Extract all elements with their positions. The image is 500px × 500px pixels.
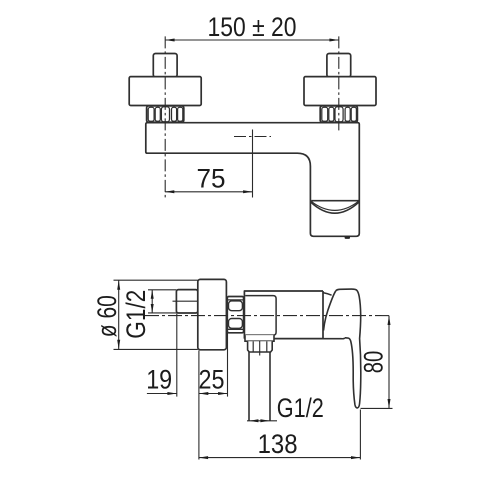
arrow 138 left bbox=[199, 456, 208, 459]
arrow ø60 up bbox=[117, 280, 120, 289]
handle cap and lever outline bbox=[336, 289, 361, 408]
right fitting centerline bbox=[338, 36, 340, 131]
arrow 150 left bbox=[165, 39, 174, 42]
small G1/2 extension bottom bbox=[148, 312, 176, 314]
138 dimension line bbox=[199, 457, 361, 459]
outlet hex bbox=[248, 341, 273, 352]
wall supply connector G1/2 bbox=[176, 290, 197, 313]
svg-text:G1/2: G1/2 bbox=[277, 393, 324, 423]
138 right extension bbox=[359, 410, 361, 460]
arrow 75 left bbox=[165, 190, 174, 193]
right escutcheon bbox=[304, 77, 376, 106]
outlet pipe right edge bbox=[269, 352, 271, 421]
handle skirt shoulder curve bbox=[323, 293, 332, 296]
ø60 extension top bbox=[114, 279, 198, 281]
outlet flange bbox=[245, 335, 274, 341]
left escutcheon bbox=[129, 77, 201, 106]
arrow ø60 down bbox=[117, 340, 120, 349]
handle lever front edge bbox=[324, 291, 336, 331]
small G1/2 extension top bbox=[148, 289, 176, 291]
main centerline bbox=[145, 315, 391, 317]
union nut side view bbox=[227, 297, 243, 333]
svg-text:150 ± 20: 150 ± 20 bbox=[208, 12, 297, 42]
svg-text:ø 60: ø 60 bbox=[92, 295, 122, 337]
bar center cross horizontal bbox=[234, 136, 271, 138]
aerator ring outer arc bbox=[311, 202, 359, 213]
right union cap bbox=[327, 54, 351, 77]
arrow G1/2 left bbox=[249, 419, 258, 422]
80 dimension line bbox=[388, 316, 390, 409]
arrow 80 down bbox=[388, 399, 391, 408]
svg-text:138: 138 bbox=[258, 429, 298, 459]
dimension 75 line bbox=[165, 191, 253, 193]
25 dimension line bbox=[199, 393, 228, 395]
arrow small G1/2 up bbox=[151, 290, 154, 299]
G1/2 bottom dimension line bbox=[247, 420, 277, 422]
ø60 extension bottom bbox=[114, 348, 198, 350]
aerator ring straight line bbox=[311, 200, 358, 202]
arrow G1/2 right bbox=[260, 419, 269, 422]
left fitting centerline bbox=[164, 36, 166, 197]
left union cap bbox=[153, 54, 177, 77]
bar center extension line bbox=[252, 130, 254, 198]
arrow 75 right bbox=[243, 190, 252, 193]
small G1/2 dimension line bbox=[151, 290, 153, 313]
arrow 150 right bbox=[329, 39, 338, 42]
outlet pipe left edge bbox=[248, 352, 250, 421]
outlet hex facet lines bbox=[253, 341, 267, 351]
arrow 25 right bbox=[218, 392, 227, 395]
aerator nub bbox=[345, 236, 350, 239]
valve body side view bbox=[244, 291, 323, 339]
arrow small G1/2 down bbox=[151, 304, 154, 313]
outlet pipe center tick bbox=[259, 341, 261, 356]
arrow 138 right bbox=[351, 456, 360, 459]
19 leader line bbox=[147, 393, 177, 395]
svg-text:75: 75 bbox=[197, 163, 226, 193]
dimension ø60 line bbox=[118, 280, 120, 349]
inlet boss lines bbox=[245, 296, 276, 336]
extension line at nut right bbox=[227, 333, 229, 397]
arrow 25 left bbox=[199, 392, 208, 395]
handle skirt bottom curl bbox=[323, 337, 345, 340]
arrow 80 up bbox=[388, 316, 391, 325]
svg-text:G1/2: G1/2 bbox=[121, 290, 151, 339]
80 bottom extension bbox=[361, 407, 393, 409]
left union nut bbox=[147, 106, 184, 122]
aerator ring inner arc bbox=[311, 201, 359, 210]
escutcheon side view bbox=[198, 279, 227, 349]
extension line at escutcheon left bbox=[198, 351, 200, 460]
svg-text:25: 25 bbox=[199, 365, 225, 395]
dimension 150 line bbox=[165, 39, 339, 41]
extension line at connector left bbox=[176, 314, 178, 397]
connector axis line bbox=[173, 300, 202, 302]
right union nut bbox=[320, 106, 357, 122]
svg-text:19: 19 bbox=[146, 365, 172, 395]
arrow 19 right tip bbox=[167, 392, 176, 395]
mixer bar body with spout outline bbox=[146, 123, 359, 237]
svg-text:80: 80 bbox=[359, 351, 389, 374]
